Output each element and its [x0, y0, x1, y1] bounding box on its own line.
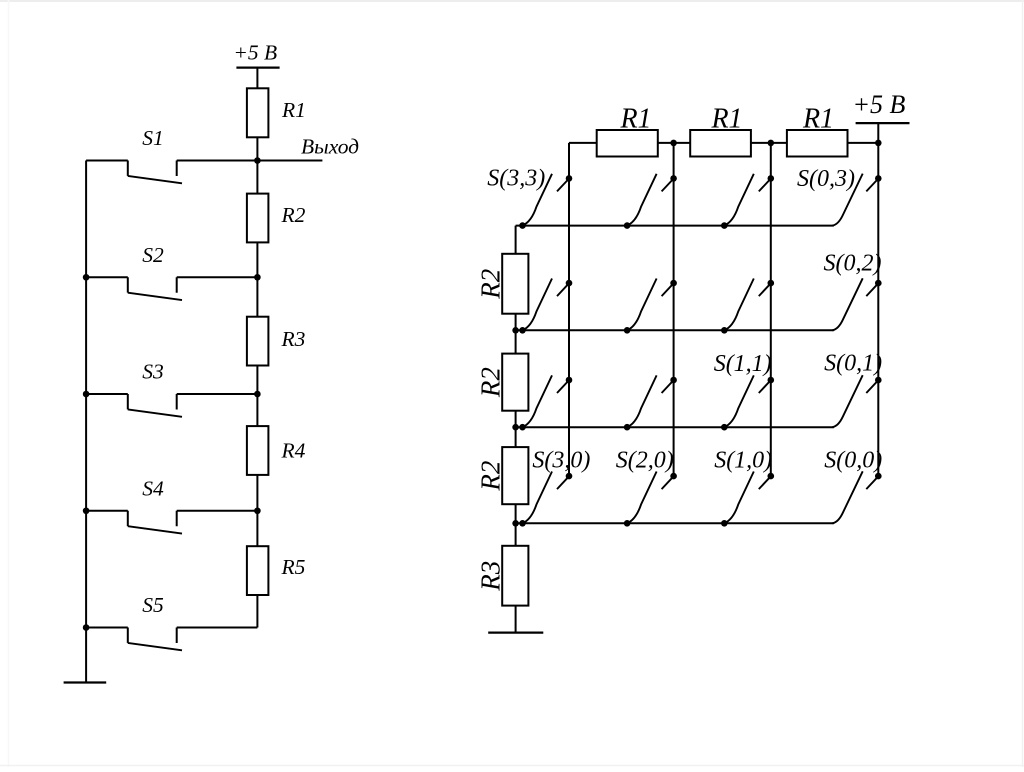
resistor R2 (column chain) [502, 354, 528, 411]
node junction dot +5V rail top [875, 140, 882, 147]
node output junction dot [254, 157, 261, 164]
wire R1#1 to R1#2 [658, 142, 690, 144]
switch S(2,3) [624, 174, 677, 229]
svg-text:+5 В: +5 В [233, 41, 277, 65]
switch S(0,1) [832, 375, 881, 427]
svg-text:R2: R2 [476, 367, 506, 398]
resistor R3 (column chain) [502, 546, 528, 606]
svg-text:R5: R5 [281, 555, 306, 579]
svg-text:S3: S3 [142, 360, 164, 384]
switch S(3,3) [519, 174, 572, 229]
switch S(1,3) [721, 174, 774, 229]
svg-text:S(1,0): S(1,0) [714, 448, 772, 474]
switch S(1,1) [721, 375, 774, 430]
svg-text:S(0,0): S(0,0) [824, 448, 882, 474]
resistor R1 #1 (row resistor) [597, 130, 658, 157]
node junction dot column 2 top [670, 140, 677, 147]
wire R1 bottom to output node [256, 137, 258, 160]
node junction dot column 1 top [768, 140, 775, 147]
resistor R2 (column chain) [502, 254, 528, 314]
wire node to R5 top [256, 511, 258, 546]
switch S(2,0) [624, 472, 677, 527]
power +5V terminal bar (left circuit) [236, 66, 279, 68]
wire left vertical rail [85, 161, 87, 683]
ground symbol (left circuit) [64, 681, 107, 683]
switch S(3,1) [519, 375, 572, 430]
wire column 3 top link [569, 142, 597, 144]
svg-text:Выход: Выход [301, 134, 359, 158]
resistor R5 (left circuit) [247, 546, 269, 595]
resistor R1 (left circuit) [247, 88, 269, 137]
resistor R1 #2 (row resistor) [690, 130, 751, 157]
switch S(2,2) [624, 279, 677, 334]
switch S1 [86, 161, 257, 184]
switch S4 [86, 511, 257, 534]
node junction dot rail row S4 [83, 507, 90, 514]
node junction dot rail row S2 [83, 274, 90, 281]
svg-text:S5: S5 [142, 593, 164, 617]
wire node to R3 top [256, 277, 258, 316]
wire R3 bottom down [256, 366, 258, 395]
node junction dot chain row 2 [512, 327, 519, 334]
svg-text:S1: S1 [142, 126, 164, 150]
resistor R4 (left circuit) [247, 426, 269, 475]
svg-text:S(0,1): S(0,1) [824, 351, 882, 377]
node junction dot rail row S5 [83, 624, 90, 631]
wire node to R2 top [256, 161, 258, 194]
svg-text:S(0,3): S(0,3) [797, 166, 855, 192]
power +5V terminal bar (right circuit) [856, 122, 910, 124]
node junction dot chain row S3 [254, 391, 261, 398]
svg-text:R2: R2 [281, 203, 306, 227]
switch S(0,2) [832, 278, 881, 330]
svg-text:R2: R2 [476, 461, 506, 492]
wire R1#3 to +5V rail [848, 142, 879, 144]
wire column 1 vertical [770, 143, 772, 476]
switch S(3,0) [519, 472, 572, 527]
svg-text:R1: R1 [281, 98, 306, 122]
resistor R3 (left circuit) [247, 317, 269, 366]
wire row 2 horizontal [516, 329, 834, 331]
svg-text:S(0,2): S(0,2) [824, 251, 882, 277]
svg-text:S(1,1): S(1,1) [714, 351, 772, 377]
svg-text:R1: R1 [710, 104, 742, 135]
switch S(1,0) [721, 472, 774, 527]
node junction dot chain row 1 [512, 424, 519, 431]
wire row 1 horizontal [516, 426, 834, 428]
wire +5V rail (column 0) [877, 123, 879, 476]
wire row 0 horizontal [516, 522, 834, 524]
svg-text:+5 В: +5 В [853, 90, 906, 119]
svg-text:R4: R4 [281, 439, 306, 463]
svg-text:S(2,0): S(2,0) [616, 448, 674, 474]
svg-text:R3: R3 [281, 327, 306, 351]
switch S5 [86, 628, 257, 651]
wire R4 bottom down [256, 475, 258, 511]
wire node to R4 top [256, 394, 258, 426]
wire R5 bottom down [256, 595, 258, 628]
switch S3 [86, 394, 257, 417]
svg-text:S4: S4 [142, 476, 164, 500]
wire R2 bottom down [256, 242, 258, 277]
node junction dot chain row S2 [254, 274, 261, 281]
switch S(2,1) [624, 375, 677, 430]
switch S(3,2) [519, 279, 572, 334]
ground symbol (right circuit) [488, 631, 543, 633]
wire row 3 horizontal [516, 225, 834, 227]
wire column 3 vertical [568, 143, 570, 476]
switch S(0,0) [832, 471, 881, 523]
resistor R2 (column chain) [502, 447, 528, 504]
svg-text:S(3,3): S(3,3) [487, 166, 545, 192]
svg-text:R3: R3 [476, 561, 506, 592]
wire column 2 vertical [673, 143, 675, 476]
wire +5V bar to R1 top [256, 68, 258, 89]
switch S(1,2) [721, 279, 774, 334]
svg-text:R1: R1 [619, 104, 651, 135]
wire R1#2 to R1#3 [751, 142, 787, 144]
wire output to the right [257, 160, 322, 162]
node junction dot chain row S4 [254, 507, 261, 514]
decorative edges [0, 0, 1024, 2]
svg-text:S2: S2 [142, 243, 164, 267]
wire resistor chain vertical (right circuit) [515, 226, 517, 633]
resistor R1 #3 (row resistor) [787, 130, 848, 157]
resistor R2 (left circuit) [247, 194, 269, 243]
switch S2 [86, 277, 257, 300]
svg-text:R2: R2 [476, 269, 506, 300]
node junction dot rail row S3 [83, 391, 90, 398]
switch S(0,3) [832, 174, 881, 226]
svg-text:R1: R1 [802, 104, 834, 135]
svg-text:S(3,0): S(3,0) [532, 448, 590, 474]
node junction dot chain row 0 [512, 520, 519, 527]
